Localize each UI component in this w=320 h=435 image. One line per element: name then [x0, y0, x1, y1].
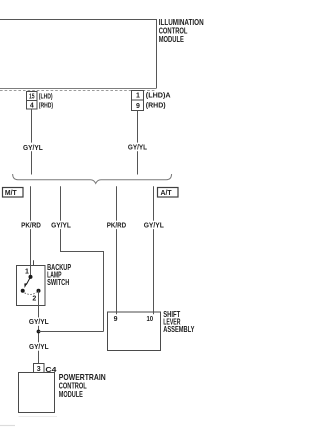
svg-text:(RHD): (RHD) [39, 100, 54, 109]
label GY/YL M/T [51, 221, 72, 229]
page edge mark bottom left [0, 425, 15, 427]
backup lamp switch left contact dot [21, 289, 25, 293]
svg-text:PK/RD: PK/RD [107, 222, 126, 229]
svg-text:1: 1 [25, 269, 29, 276]
wire GY/YL from pin 9 to brace [137, 111, 139, 175]
label GY/YL A/T [143, 221, 164, 229]
shift lever pin 9 stub [116, 312, 118, 314]
svg-text:SWITCH: SWITCH [47, 277, 69, 287]
svg-text:(RHD): (RHD) [146, 101, 166, 110]
label GY/YL below switch [28, 317, 50, 325]
pin 4 (RHD) box [27, 101, 38, 110]
wire PK/RD A/T to shift lever pin 9 [116, 186, 118, 313]
label GY/YL upper right [127, 143, 149, 152]
svg-text:GY/YL: GY/YL [23, 145, 43, 152]
A/T box [158, 188, 179, 198]
backup lamp switch box [17, 266, 46, 306]
backup lamp switch pin 1 tick [33, 260, 35, 265]
pcm box shadow line [19, 416, 58, 418]
powertrain control module label [59, 372, 106, 399]
svg-text:GY/YL: GY/YL [144, 222, 165, 229]
M/T box [3, 188, 24, 198]
pin 9 (RHD) box [132, 100, 144, 111]
svg-text:PK/RD: PK/RD [21, 222, 41, 229]
svg-text:4: 4 [30, 102, 34, 109]
svg-text:9: 9 [114, 316, 118, 323]
label PK/RD M/T [21, 221, 42, 229]
junction wire to A/T branch [39, 331, 104, 333]
svg-text:M/T: M/T [5, 188, 17, 197]
svg-text:GY/YL: GY/YL [128, 144, 148, 151]
brace splitting two wires into four [13, 174, 172, 183]
svg-text:MODULE: MODULE [159, 34, 185, 44]
svg-text:(LHD): (LHD) [39, 91, 53, 100]
wire from backup lamp switch pin 2 to PCM [38, 291, 40, 364]
backup lamp switch contact 1 dot [29, 275, 33, 279]
wire GY/YL from pin 4 to brace [31, 109, 33, 175]
svg-text:(LHD)A: (LHD)A [146, 91, 171, 100]
pin 15 (LHD) box [27, 92, 38, 101]
label GY/YL upper left [22, 143, 44, 152]
wire GY/YL A/T to shift lever pin 10 [153, 186, 155, 313]
svg-text:10: 10 [146, 316, 153, 323]
svg-text:9: 9 [136, 103, 140, 110]
svg-text:1: 1 [136, 93, 140, 100]
svg-text:A/T: A/T [161, 188, 172, 197]
illumination control module connector dashed line [0, 90, 156, 92]
backup lamp switch wire into pin 1 [30, 266, 32, 277]
svg-text:GY/YL: GY/YL [51, 222, 71, 229]
shift lever pin 10 stub [153, 312, 155, 314]
wire PK/RD M/T to backup lamp switch [30, 186, 32, 265]
junction dot [37, 330, 41, 334]
label PK/RD A/T [106, 221, 127, 229]
pin 1 (LHD)A box [132, 91, 144, 101]
svg-text:MODULE: MODULE [59, 389, 83, 399]
label GY/YL above PCM [28, 342, 50, 350]
backup lamp switch label [47, 262, 71, 287]
svg-text:2: 2 [32, 296, 36, 303]
wire GY/YL M/T with jog to junction [61, 186, 104, 331]
shift lever assembly box [108, 312, 161, 351]
svg-text:GY/YL: GY/YL [29, 319, 49, 326]
backup lamp switch travel dashed arc [25, 293, 37, 295]
svg-text:15: 15 [29, 93, 35, 100]
PCM pin 3 box [34, 364, 45, 373]
svg-text:GY/YL: GY/YL [29, 344, 49, 351]
svg-text:ASSEMBLY: ASSEMBLY [163, 324, 195, 334]
illumination control module box outline [0, 20, 157, 89]
powertrain control module box [19, 373, 55, 413]
backup lamp switch lever arm with arrowhead [26, 277, 30, 285]
backup lamp switch right contact dot [37, 289, 41, 293]
shift lever assembly label [163, 309, 195, 334]
illumination control module label [159, 17, 204, 44]
